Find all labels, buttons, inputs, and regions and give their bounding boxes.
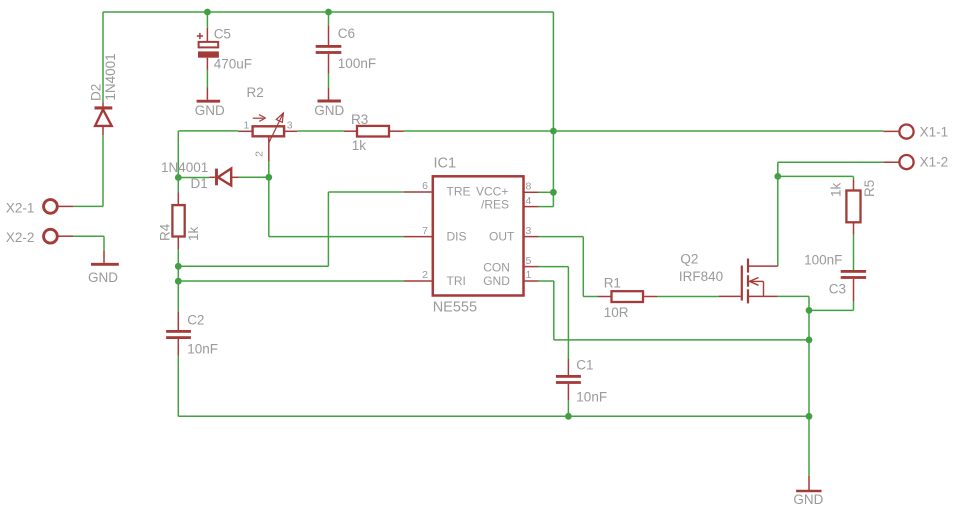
- svg-text:R2: R2: [247, 85, 264, 100]
- svg-text:C3: C3: [829, 282, 846, 297]
- svg-text:GND: GND: [88, 270, 118, 285]
- svg-text:2: 2: [253, 151, 265, 157]
- svg-text:R1: R1: [604, 276, 621, 291]
- svg-text:X1-1: X1-1: [920, 124, 949, 139]
- svg-text:7: 7: [422, 225, 428, 237]
- svg-text:OUT: OUT: [489, 229, 515, 243]
- svg-text:D2: D2: [89, 84, 104, 101]
- svg-text:GND: GND: [483, 274, 510, 288]
- svg-text:3: 3: [526, 225, 532, 237]
- svg-text:NE555: NE555: [433, 299, 477, 315]
- svg-text:X1-2: X1-2: [920, 155, 949, 170]
- svg-text:8: 8: [526, 181, 532, 193]
- svg-text:Q2: Q2: [680, 252, 698, 267]
- svg-text:C6: C6: [338, 26, 355, 41]
- svg-text:R5: R5: [862, 180, 877, 197]
- svg-text:10R: 10R: [604, 305, 629, 320]
- svg-text:DIS: DIS: [447, 229, 467, 243]
- svg-text:C2: C2: [187, 313, 204, 328]
- svg-text:X2-2: X2-2: [6, 230, 35, 245]
- svg-text:CON: CON: [483, 260, 510, 274]
- svg-text:GND: GND: [195, 103, 225, 118]
- svg-text:100nF: 100nF: [804, 252, 842, 267]
- svg-text:1k: 1k: [186, 226, 201, 241]
- svg-text:TRI: TRI: [447, 274, 466, 288]
- svg-text:VCC+: VCC+: [476, 184, 508, 198]
- svg-text:C5: C5: [214, 27, 231, 42]
- svg-text:5: 5: [526, 255, 532, 267]
- svg-text:3: 3: [287, 119, 293, 131]
- svg-text:1k: 1k: [352, 138, 367, 153]
- svg-text:1: 1: [244, 120, 250, 132]
- svg-text:2: 2: [422, 269, 428, 281]
- svg-text:470uF: 470uF: [214, 56, 252, 71]
- svg-text:R3: R3: [351, 112, 368, 127]
- svg-text:1: 1: [526, 269, 532, 281]
- svg-text:X2-1: X2-1: [6, 201, 35, 216]
- svg-text:1k: 1k: [829, 182, 844, 197]
- svg-text:R4: R4: [158, 223, 173, 241]
- svg-text:6: 6: [422, 180, 428, 192]
- svg-text:/RES: /RES: [481, 197, 509, 211]
- svg-text:4: 4: [526, 195, 532, 207]
- svg-text:IRF840: IRF840: [679, 269, 723, 284]
- svg-text:10nF: 10nF: [576, 390, 607, 405]
- svg-text:D1: D1: [191, 176, 208, 191]
- svg-text:10nF: 10nF: [187, 342, 218, 357]
- svg-text:C1: C1: [576, 358, 593, 373]
- svg-text:TRE: TRE: [447, 184, 471, 198]
- svg-text:100nF: 100nF: [338, 56, 376, 71]
- svg-text:1N4001: 1N4001: [161, 160, 208, 175]
- svg-text:1N4001: 1N4001: [103, 53, 118, 100]
- svg-text:GND: GND: [314, 103, 344, 118]
- svg-text:IC1: IC1: [434, 156, 457, 172]
- svg-text:GND: GND: [793, 492, 823, 507]
